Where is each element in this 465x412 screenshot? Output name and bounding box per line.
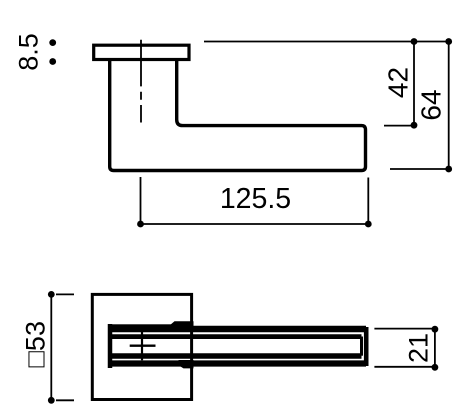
extension line: lever end for 125.5 [367, 178, 369, 228]
extension line: top datum [204, 41, 450, 43]
front view: neck upper edge raise [108, 324, 176, 327]
dimension line 64 (vertical) [445, 38, 452, 172]
label 64 [416, 89, 447, 120]
front view: lever left end cap [108, 324, 113, 368]
label 42 [383, 67, 414, 98]
extension line: lever bottom for 21 [374, 366, 432, 368]
label 8.5 [14, 33, 44, 71]
front view: lever top edge [108, 326, 366, 332]
dimension line 125.5 (horizontal) [137, 221, 372, 228]
dimension 8.5: upper dot [49, 39, 56, 46]
extension tick: square top [56, 293, 74, 295]
extension tick: square bottom [56, 399, 74, 401]
dimension line 21 (vertical) [432, 326, 439, 371]
svg-text:64: 64 [416, 89, 447, 120]
dimension line square-53 (vertical) [48, 291, 55, 404]
svg-text:125.5: 125.5 [220, 183, 291, 215]
front view: lever upper inner edge [110, 334, 362, 339]
extension line: lever top for 21 [374, 328, 432, 330]
extension line: rose centre for 125.5 [140, 177, 142, 227]
front view: lever inner right edge [360, 337, 363, 356]
front view: neck collar upper tab [168, 321, 194, 332]
side view: vertical centerline (dash-dot) [140, 40, 142, 123]
extension line: lever top for 42 [384, 125, 414, 127]
dimension line 42 (vertical) [411, 38, 418, 128]
svg-text:42: 42 [383, 67, 414, 98]
front view: square rose plate [92, 294, 191, 399]
front view: lever bottom edge [108, 360, 366, 366]
side view: rose cap plate [94, 45, 189, 59]
front view: lever lower inner edge [110, 353, 362, 358]
front view: neck collar lower tab [179, 360, 194, 368]
label square-53 [20, 321, 50, 367]
svg-text:8.5: 8.5 [14, 33, 44, 71]
front view: lever right end cap [364, 327, 369, 366]
dimension 8.5: lower dot [49, 58, 56, 65]
label 125.5 [220, 183, 291, 215]
svg-text:21: 21 [404, 333, 434, 363]
front view: spindle centre cross bar [130, 345, 156, 347]
front view: spindle centre vertical line [141, 331, 143, 360]
extension line: lever bottom for 64 [390, 168, 449, 170]
label 21 [404, 333, 434, 363]
side view: lever handle outline [110, 60, 366, 171]
svg-text:□53: □53 [20, 321, 50, 367]
